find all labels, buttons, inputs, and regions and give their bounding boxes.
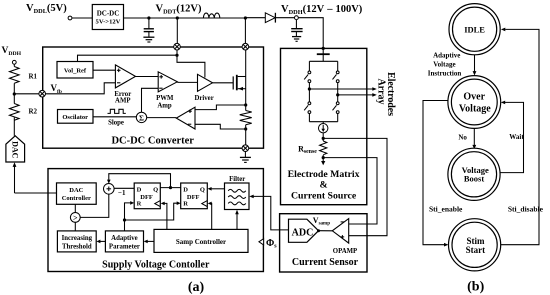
svg-text:IDLE: IDLE [464,24,485,34]
comparator U2 [176,107,195,129]
wire VDDT rail [124,17,246,19]
svg-text:>: > [73,214,78,223]
wire PWM to Driver [177,81,197,83]
svg-text:R: R [183,200,188,207]
junction C1 tap [147,16,150,19]
wire VDDH to electrode matrix [298,18,323,49]
ADC converter [289,219,319,242]
svg-text:&: & [320,180,328,191]
wire Rsense bottom sense [323,158,377,224]
svg-text:Parameter: Parameter [109,244,140,251]
svg-text:ADC: ADC [292,227,314,238]
resistor R2 [10,104,20,121]
wire DAC controller to gt [74,204,76,212]
op-amp Error AMP [115,65,135,88]
ground G2 [292,36,301,38]
svg-text:DAC: DAC [11,141,20,159]
svg-text:Supply Voltage Contoller: Supply Voltage Contoller [102,259,210,270]
svg-text:Slope: Slope [108,119,124,126]
svg-text:PWM: PWM [156,95,174,102]
svg-text:R2: R2 [29,108,38,116]
svg-text:Electrode Matrix: Electrode Matrix [288,169,360,180]
port Vfb on left edge [39,90,46,97]
slope waveform glyph [108,109,126,113]
wire Rsense top sense [323,138,387,235]
switch S2 [337,61,339,71]
ground G3 [240,156,251,158]
Supply Voltage Contoller box [48,169,263,272]
wire Filter to DFF2 [211,188,224,190]
arrow current return [322,155,324,161]
block Oscilator [58,110,94,124]
port X2 on top edge [242,43,249,50]
wire internal 12V supply [176,50,178,55]
wire reset net [123,218,126,221]
svg-text:VDDL(5V): VDDL(5V) [26,3,67,15]
bulk plate bar [317,53,330,55]
wire Samp to Filter [236,214,238,229]
resistor R1 [10,67,20,84]
inductor L1 [203,13,219,18]
svg-text:Wait: Wait [509,133,524,141]
capacitor C1 [148,18,150,28]
wire Vol_Ref to Error AMP [93,69,115,71]
resistor Rsense [320,141,327,155]
wire to diode [245,17,265,19]
wire drop to port X1 [176,18,178,43]
op-amp OPAMP [332,219,348,244]
ground G1 [143,36,154,38]
wire Sti_disable [501,29,539,244]
block Adaptive Parameter [105,231,143,252]
resistor feedback [240,111,252,125]
wire gt to Increasing [74,222,76,231]
terminal VDDH divider [12,60,16,64]
svg-text:(a): (a) [188,280,205,295]
junction comparator plus tap [244,103,247,106]
wire DAC controller to DAC [15,192,57,194]
junction supply entry [322,47,325,50]
svg-text:DC-DC: DC-DC [97,10,120,18]
svg-text:No: No [458,134,467,142]
Electrode Matrix box [281,48,367,204]
wire junction to port Vfb [14,93,39,95]
junction electrode out B [336,93,339,96]
terminal VDDL [68,16,72,20]
svg-text:VDDT(12V): VDDT(12V) [156,4,202,16]
current source I1 [322,122,324,124]
wire comparator to sigma [147,117,177,119]
wire X3 to ground [244,152,246,158]
svg-text:Adaptive: Adaptive [111,235,137,242]
transistor M1 [232,76,234,89]
comparator gt circle [70,213,80,223]
DFF2 flip-flop [181,183,208,209]
block Samp Controller [154,229,248,252]
wire feedback to summer [109,174,171,188]
wire electrode arrow B [338,94,373,96]
wire summer to DFF1 D [114,187,134,189]
svg-text:AMP: AMP [115,98,130,105]
wire terminal to R1 [13,64,15,66]
svg-text:R: R [137,200,142,207]
wire IDLE to OverVoltage [474,55,476,72]
svg-text:Threshold: Threshold [62,244,92,251]
wire oscilator to sigma [93,116,136,118]
wire source to divider [245,77,247,111]
svg-text:D: D [183,186,188,193]
amp Driver [198,74,213,91]
wire ADC to Filter [253,196,288,230]
svg-text:Oscilator: Oscilator [62,114,88,121]
svg-text:DFF: DFF [187,194,200,201]
switch S1 [308,61,310,71]
svg-text:Σ: Σ [139,114,144,123]
wire DFF1 clock [164,203,167,229]
svg-text:Over: Over [463,91,485,102]
wire R2 to DAC [13,117,15,136]
svg-text:Increasing: Increasing [62,235,93,242]
svg-text:Filter: Filter [229,176,245,183]
summer sigma [136,112,146,122]
state Over Voltage [448,76,501,129]
switch S3 [308,89,310,102]
svg-text:R1: R1 [29,73,38,81]
block Vol_Ref [57,62,93,79]
svg-text:Q: Q [200,186,205,193]
svg-text:OPAMP: OPAMP [333,248,357,255]
wire bridge bottom rail [309,121,337,123]
state Voltage Boost [448,148,500,200]
svg-text:Driver: Driver [194,95,213,102]
wire DFF1 Q to DFF2 D [160,187,180,189]
svg-text:Voltage: Voltage [459,104,491,115]
DC-DC Converter box [43,47,264,148]
junction top rail x245 [244,16,247,19]
svg-text:Current Sensor: Current Sensor [292,257,359,268]
wire DAC control input [14,165,16,194]
wire Vfb to Error AMP [46,83,116,94]
wire Wait loop [500,102,523,172]
junction Rsense bottom [322,156,325,159]
wire Adaptive to Increasing [100,240,106,242]
diode D1 [265,13,275,23]
wire comparator plus input [195,105,246,110]
state Stim Start [449,219,501,271]
port Phi_s [259,239,264,245]
svg-text:Q: Q [153,186,158,193]
svg-text:Sti_disable: Sti_disable [508,205,544,214]
wire summer to gt [80,194,109,217]
wire Error AMP to PWM [136,76,159,78]
wire bridge top rail [309,60,337,62]
capacitor C2 [295,20,297,29]
wire comparator minus input [195,124,246,129]
svg-text:DFF: DFF [140,194,153,201]
svg-text:Adaptive: Adaptive [433,52,460,60]
svg-text:Vol_Ref: Vol_Ref [64,68,87,75]
junction R1 R2 [13,92,16,95]
svg-text:Amp: Amp [157,102,172,109]
svg-text:Array: Array [376,78,387,104]
svg-text:Controller: Controller [62,195,91,202]
block DC-DC 5V-12V module [92,5,123,30]
wire DFF2 clock [209,203,211,229]
wire drop to port X2 [244,18,246,44]
wire supply entry [322,48,324,61]
wire Sti_enable [423,101,448,245]
svg-text:Voltage: Voltage [433,61,455,69]
wire OPAMP to ADC [319,230,333,232]
switch S4 [337,95,339,102]
wire VDDL to converter module [72,17,92,19]
Current Sensor box [280,214,367,272]
wire source to Rsense [322,133,324,141]
svg-text:(b): (b) [467,280,484,295]
block DAC Controller [57,183,97,204]
svg-text:−1: −1 [118,189,126,197]
wire OverVoltage to VoltageBoost [473,129,475,146]
svg-text:Boost: Boost [464,173,484,183]
state IDLE [449,4,500,55]
DFF1 flip-flop [134,183,160,209]
svg-text:5V->12V: 5V->12V [96,19,121,26]
wire diode to VDDH node [275,17,294,19]
summer plus circle [104,184,115,195]
port X3 on bottom edge [242,145,249,152]
wire Samp to Adaptive [147,240,154,242]
svg-text:DC-DC Converter: DC-DC Converter [111,135,194,146]
wire Driver to gate [213,82,234,84]
wire electrode arrow A [309,88,372,90]
block Increasing Threshold [57,231,96,252]
wire R1 to node Vfb [13,83,15,94]
svg-text:Start: Start [466,245,486,255]
wire resistor to X3 [245,125,247,145]
svg-text:DAC: DAC [69,187,83,194]
port X1 on top edge [174,43,181,50]
svg-text:Instruction: Instruction [428,70,462,78]
DAC converter [6,136,25,162]
svg-text:Samp Controller: Samp Controller [176,238,226,246]
junction Vsamp [317,229,320,232]
svg-text:Sti_enable: Sti_enable [429,205,463,214]
junction Rsense top [322,137,325,140]
junction Q feedback [169,186,172,189]
junction comparator minus tap [244,127,247,130]
node VDDH [295,16,299,20]
svg-text:D: D [137,186,142,193]
wire X2 to drain [245,50,247,77]
svg-text:Current Source: Current Source [291,190,357,201]
wire supply to driver [177,55,205,77]
op-amp PWM Amp [158,72,177,92]
junction top rail x177 [176,16,179,19]
wire sigma to PWM [142,88,159,112]
junction electrode out A [308,87,311,90]
